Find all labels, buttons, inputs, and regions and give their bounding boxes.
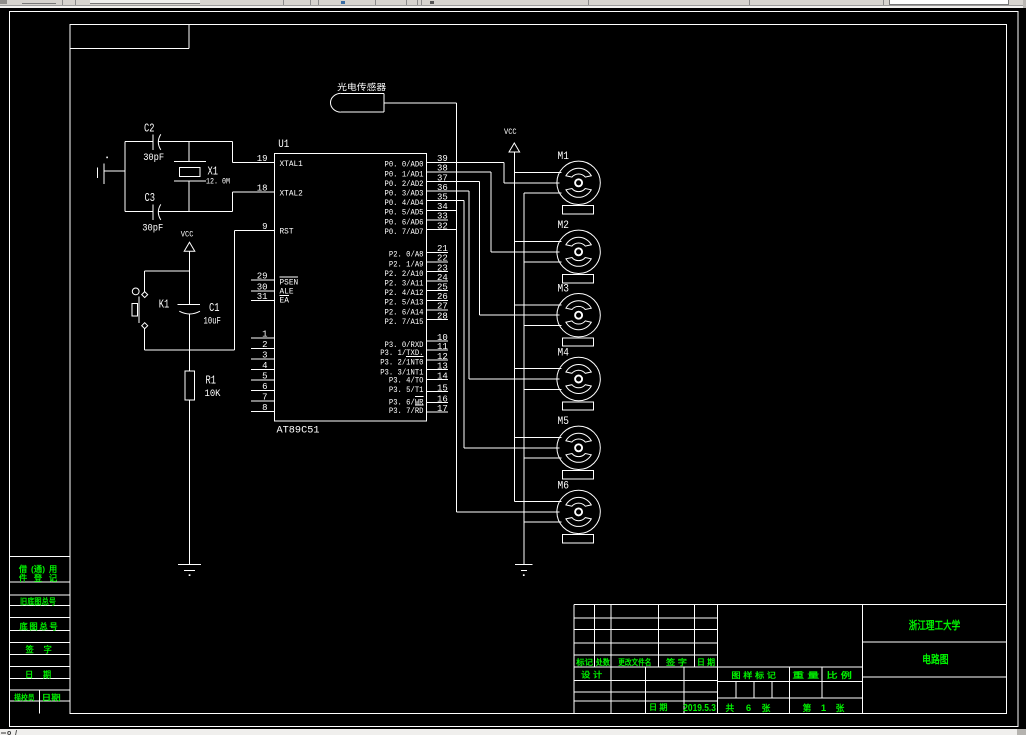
svg-text:24: 24 [437,273,448,283]
svg-text:P2. 4/A12: P2. 4/A12 [385,288,424,298]
svg-text:23: 23 [437,263,448,273]
svg-text:P0. 4/AD4: P0. 4/AD4 [385,198,424,208]
svg-text:比 例: 比 例 [827,670,852,680]
svg-text:2019.5.3: 2019.5.3 [683,703,716,714]
svg-text:12: 12 [437,352,448,362]
svg-text:16: 16 [437,394,448,404]
svg-text:日 期: 日 期 [649,702,668,712]
svg-text:27: 27 [437,302,448,312]
svg-text:P0. 3/AD3: P0. 3/AD3 [385,189,424,199]
svg-text:件: 件 [19,573,28,583]
svg-text:21: 21 [437,244,448,254]
svg-text:电路图: 电路图 [922,652,949,666]
svg-text:28: 28 [437,311,448,321]
svg-text:6: 6 [746,703,751,714]
svg-text:张: 张 [836,703,845,713]
svg-text:36: 36 [437,183,448,193]
svg-text:共: 共 [725,702,734,713]
svg-text:P2. 3/A11: P2. 3/A11 [385,279,424,289]
svg-text:15: 15 [437,383,448,393]
svg-text:P2. 1/A9: P2. 1/A9 [389,259,424,269]
svg-text:总: 总 [39,622,48,632]
svg-text:更改文件名: 更改文件名 [618,657,651,667]
svg-text:P0. 7/AD7: P0. 7/AD7 [385,227,424,237]
svg-text:登: 登 [33,573,43,583]
svg-text:11: 11 [437,342,448,352]
svg-text:日 期: 日 期 [697,657,715,667]
svg-text:30pF: 30pF [142,222,163,233]
svg-text:XTAL2: XTAL2 [280,188,303,198]
svg-text:P0. 5/AD5: P0. 5/AD5 [385,208,424,218]
svg-text:C3: C3 [145,192,156,205]
svg-text:C1: C1 [209,302,220,315]
svg-text:14: 14 [437,371,448,381]
svg-text:号: 号 [49,622,57,632]
svg-text:重 量: 重 量 [792,670,819,680]
svg-text:P3. 7/RD: P3. 7/RD [389,406,424,416]
svg-text:日: 日 [25,670,33,680]
svg-text:P2. 0/A8: P2. 0/A8 [389,250,424,260]
svg-text:30pF: 30pF [143,152,164,163]
svg-text:2: 2 [262,340,267,350]
svg-text:第: 第 [803,702,812,713]
svg-text:浙江理工大学: 浙江理工大学 [909,618,961,632]
svg-text:VCC: VCC [181,231,194,240]
svg-text:1: 1 [262,330,267,340]
svg-text:M2: M2 [558,220,569,232]
svg-text:C2: C2 [144,123,155,136]
svg-text:AT89C51: AT89C51 [277,426,320,437]
svg-text:32: 32 [437,221,448,231]
svg-text:6: 6 [262,382,267,392]
svg-text:处数: 处数 [595,657,611,667]
svg-text:P0. 0/AD0: P0. 0/AD0 [385,160,424,170]
svg-text:光电传感器: 光电传感器 [337,81,386,92]
svg-text:3: 3 [262,351,267,361]
svg-text:M5: M5 [558,416,569,428]
svg-text:签: 签 [25,645,35,655]
svg-text:日期: 日期 [42,692,62,702]
svg-text:P3. 4/TO: P3. 4/TO [389,376,424,386]
svg-text:8: 8 [262,403,267,413]
svg-text:37: 37 [437,173,448,183]
svg-text:10uF: 10uF [204,316,221,327]
svg-text:10K: 10K [205,388,221,399]
svg-text:34: 34 [437,202,448,212]
svg-text:4: 4 [262,361,267,371]
svg-text:38: 38 [437,164,448,174]
svg-text:P3. 5/T1: P3. 5/T1 [389,385,424,395]
svg-text:设 计: 设 计 [581,669,602,679]
svg-text:图: 图 [29,622,37,632]
svg-text:35: 35 [437,193,448,203]
svg-text:旧底图总号: 旧底图总号 [20,597,56,607]
svg-text:29: 29 [257,272,268,282]
svg-text:M1: M1 [558,151,570,163]
svg-text:记: 记 [49,573,58,583]
svg-text:P0. 2/AD2: P0. 2/AD2 [385,179,424,189]
svg-text:EA: EA [280,296,290,306]
svg-text:33: 33 [437,212,448,222]
svg-text:M3: M3 [558,284,569,296]
svg-text:22: 22 [437,254,448,264]
svg-text:P2. 7/A15: P2. 7/A15 [385,317,424,327]
svg-text:P2. 5/A13: P2. 5/A13 [385,298,424,308]
svg-text:图 样 标 记: 图 样 标 记 [731,670,776,680]
svg-text:17: 17 [437,404,448,414]
svg-text:M6: M6 [558,480,569,492]
svg-text:描校员: 描校员 [14,693,35,702]
svg-text:M4: M4 [558,347,570,359]
svg-text:P3. 2/1NT0: P3. 2/1NT0 [380,358,423,368]
svg-text:12. 0M: 12. 0M [206,178,230,187]
svg-text:25: 25 [437,283,448,293]
svg-text:U1: U1 [278,139,289,151]
svg-text:26: 26 [437,292,448,302]
svg-text:39: 39 [437,154,448,164]
svg-text:RST: RST [280,227,294,237]
svg-text:VCC: VCC [504,128,517,137]
svg-text:XTAL1: XTAL1 [280,159,303,169]
svg-text:13: 13 [437,361,448,371]
svg-text:P0. 1/AD1: P0. 1/AD1 [385,169,424,179]
svg-text:字: 字 [43,645,51,655]
svg-text:P2. 6/A14: P2. 6/A14 [385,307,424,317]
svg-text:P2. 2/A10: P2. 2/A10 [385,269,424,279]
svg-text:标记: 标记 [575,657,593,667]
svg-text:K1: K1 [159,298,170,311]
svg-text:5: 5 [262,372,267,382]
svg-text:张: 张 [762,703,771,713]
svg-text:31: 31 [257,292,268,302]
svg-text:签 字: 签 字 [665,657,687,667]
svg-text:底: 底 [19,622,28,632]
svg-text:期: 期 [43,670,51,680]
svg-text:R1: R1 [206,375,217,388]
svg-text:7: 7 [262,393,267,403]
svg-text:1: 1 [821,703,827,714]
svg-text:P0. 6/AD6: P0. 6/AD6 [385,217,424,227]
